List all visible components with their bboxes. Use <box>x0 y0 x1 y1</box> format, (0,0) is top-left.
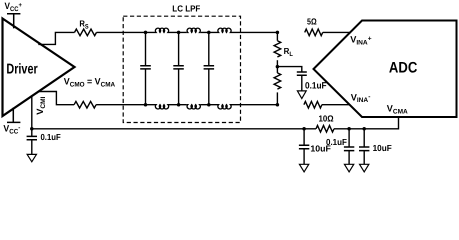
driver op-amp U1 triangle <box>3 19 75 117</box>
svg-text:LC LPF: LC LPF <box>172 3 201 13</box>
node dot bottom 2 <box>177 103 181 107</box>
resistor RL lower half <box>274 73 281 89</box>
0.1uF label (far left) <box>41 132 62 142</box>
wire 5ohm to ADC VINA+ <box>323 31 351 33</box>
VCMI wire from driver lower edge down to VCMA rail <box>31 96 33 129</box>
svg-text:0.1uF: 0.1uF <box>305 81 327 91</box>
Vcc- label <box>3 124 20 136</box>
VINA- pin label <box>351 92 371 104</box>
node dot RL bottom <box>276 103 280 107</box>
capacitor C3 (LPF shunt) <box>208 32 210 104</box>
VCMA pin wire down from ADC <box>364 117 398 129</box>
ground (10uF rightmost) <box>360 164 369 172</box>
wire L2 to node3 top <box>201 31 218 33</box>
Vcc+ supply symbol <box>7 14 20 29</box>
Vcc- supply symbol <box>7 108 20 123</box>
svg-text:10uF: 10uF <box>373 143 393 153</box>
wire: bottom resistor to LPF node 1 <box>96 104 145 106</box>
svg-text:VCMI: VCMI <box>35 96 47 114</box>
RS label <box>79 19 89 31</box>
node dot far left <box>30 127 34 131</box>
svg-text:Driver: Driver <box>6 62 38 78</box>
svg-text:RL: RL <box>284 46 293 58</box>
node dot top 2 <box>177 31 181 35</box>
VCMA pin label <box>387 104 408 116</box>
ground (RL midpoint cap) <box>297 91 306 99</box>
inductor L2 (top) <box>187 28 201 32</box>
resistor 10 ohm <box>316 126 334 133</box>
svg-text:VCC-: VCC- <box>3 124 20 136</box>
node dot 10uF left <box>302 127 306 131</box>
10uF label (left) <box>310 144 331 154</box>
ground (far left cap) <box>27 154 36 161</box>
wire RL middle <box>276 60 278 73</box>
wire: driver + output to top rail <box>38 32 74 44</box>
Vcc+ label <box>5 1 23 13</box>
svg-text:ADC: ADC <box>389 60 417 77</box>
ground (0.1uF right) <box>344 164 353 172</box>
node dot 0.1uF right <box>347 127 351 131</box>
svg-text:VCMO = VCMA: VCMO = VCMA <box>64 76 116 88</box>
capacitor 0.1uF (far left on VCMA rail) <box>31 129 33 137</box>
node dot top 1 <box>144 31 148 35</box>
svg-text:0.1uF: 0.1uF <box>326 137 347 147</box>
RL label <box>284 46 293 58</box>
wire bottom resistor to ADC VINA- <box>322 104 350 106</box>
10uF label (rightmost) <box>373 143 393 153</box>
svg-text:10Ω: 10Ω <box>319 113 334 123</box>
svg-text:5Ω: 5Ω <box>307 16 317 26</box>
node dot RL top <box>276 31 280 35</box>
node dot top 3 <box>207 31 211 35</box>
VCMI label (rotated) <box>35 96 47 114</box>
resistor RS (top series) <box>75 29 97 36</box>
resistor RL upper half <box>276 32 278 40</box>
svg-text:0.1uF: 0.1uF <box>41 132 62 142</box>
5 ohm label <box>307 16 317 26</box>
capacitor 10uF (rightmost) <box>363 129 365 147</box>
wire L3 to RL node (top) <box>232 31 278 33</box>
resistor (bottom series, unlabeled) <box>74 101 96 108</box>
0.1uF label (right of 10 ohm) <box>326 137 347 147</box>
VCMO = VCMA label <box>64 76 116 88</box>
inductor L1 (top) <box>155 28 169 32</box>
wire node to L4 bottom <box>146 104 187 106</box>
inductor L4 (bottom) <box>155 105 169 109</box>
ADC label <box>389 60 417 77</box>
Driver label <box>6 62 38 78</box>
capacitor 10uF (left of 10 ohm) <box>303 129 305 145</box>
node dot 10uF rightmost <box>362 127 366 131</box>
10 ohm label <box>319 113 334 123</box>
inductor L6 (bottom) <box>218 105 232 109</box>
resistor 5 ohm (bottom, unlabeled) <box>304 101 322 108</box>
svg-text:RS: RS <box>79 19 89 31</box>
capacitor C1 (LPF shunt) <box>145 32 147 104</box>
0.1uF label (RL midpoint) <box>305 81 327 91</box>
svg-text:VCC+: VCC+ <box>5 1 23 13</box>
capacitor 0.1uF (RL midpoint) <box>297 72 307 75</box>
node dot RL middle <box>276 65 280 69</box>
capacitor C2 (LPF shunt) <box>178 32 180 104</box>
wire: Rs to LPF node 1 <box>97 31 146 33</box>
VCMA rail wire <box>32 128 364 130</box>
node dot bottom 3 <box>207 103 211 107</box>
wire L5 to node bottom <box>201 104 218 106</box>
ADC block U2 <box>314 21 457 118</box>
wire: driver - output to bottom rail <box>39 92 75 105</box>
ground (10uF left) <box>299 164 308 172</box>
node dot bottom 1 <box>144 103 148 107</box>
wire L6 to RL node (bottom) <box>232 104 278 106</box>
wire RL midpoint to 0.1uF cap <box>277 67 301 72</box>
inductor L3 (top) <box>218 28 232 32</box>
VINA+ pin label <box>350 35 372 47</box>
capacitor 0.1uF (right of 10 ohm) <box>348 129 350 147</box>
wire node1 to L1 top <box>146 31 187 33</box>
resistor 5 ohm (top) <box>305 29 323 36</box>
inductor L5 (bottom) <box>187 105 201 109</box>
LC LPF dashed box <box>123 16 240 122</box>
LC LPF label <box>172 3 201 13</box>
